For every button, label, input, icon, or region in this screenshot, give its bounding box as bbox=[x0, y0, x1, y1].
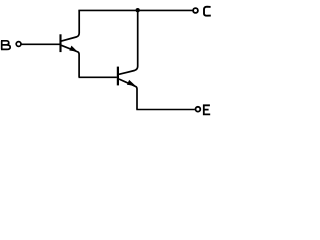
terminal E open circle bbox=[196, 107, 201, 112]
transistor Q1 emitter arrow bbox=[70, 46, 77, 51]
terminal B open circle bbox=[16, 42, 21, 47]
terminal C open circle bbox=[193, 8, 198, 13]
wire: B terminal to Q1 base bbox=[21, 43, 59, 45]
transistor Q2 collector lead bbox=[119, 10, 138, 74]
transistor Q2 emitter lead bbox=[119, 79, 137, 109]
node B label bbox=[1, 41, 10, 50]
transistor Q1 collector lead bbox=[61, 10, 79, 41]
transistor Q1 emitter lead bbox=[61, 45, 79, 77]
transistor Q1 base bar bbox=[59, 34, 61, 52]
transistor Q2 base bar bbox=[117, 67, 119, 86]
node C label bbox=[204, 7, 211, 16]
wire: Q1 emitter to Q2 base bbox=[79, 76, 117, 78]
transistor Q2 emitter arrow bbox=[128, 81, 135, 86]
bottom wire: Q2 emitter to E terminal bbox=[136, 109, 195, 111]
top wire: Q1 collector to C terminal bbox=[78, 9, 192, 11]
junction dot on top wire bbox=[136, 8, 140, 12]
node E label bbox=[203, 105, 210, 116]
